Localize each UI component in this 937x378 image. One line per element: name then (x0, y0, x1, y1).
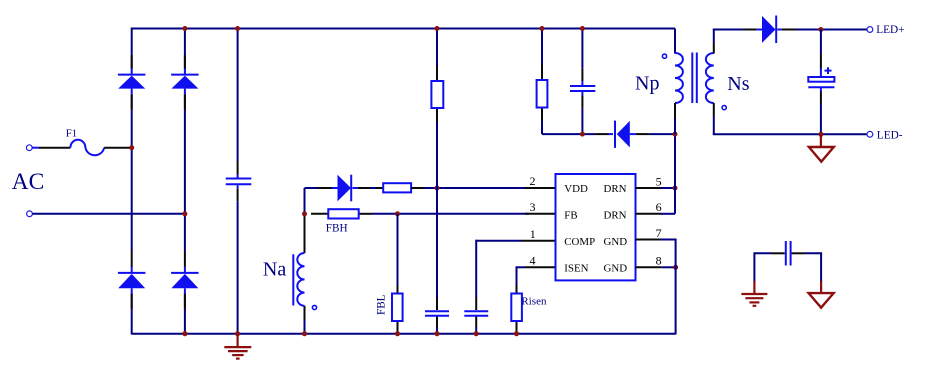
junction bottom rail at bulk cap (235, 331, 240, 336)
wire VDD row left corner (305, 187, 319, 189)
diode D2 bridge top-right (171, 55, 199, 109)
IC pin2 stub (525, 187, 556, 189)
junction top rail at bulk cap (235, 26, 240, 31)
junction pin8 node (673, 265, 678, 270)
wire resistor to VDD node (424, 187, 529, 189)
junction pin5 drain (673, 186, 678, 191)
wire startup resistor column (436, 28, 438, 335)
junction Risen bottom (514, 331, 519, 336)
junction snubber C top (580, 26, 585, 31)
svg-text:FB: FB (564, 209, 577, 221)
wire FBL column (397, 214, 399, 334)
svg-text:DRN: DRN (604, 183, 627, 195)
junction FBL bottom (395, 331, 400, 336)
svg-text:GND: GND (604, 263, 628, 275)
wire bridge left column (131, 28, 133, 335)
capacitor VDD decoupling (425, 311, 449, 316)
wire pin6 to drain (661, 213, 676, 215)
wire Na column upper (304, 188, 306, 253)
svg-text:5: 5 (656, 175, 662, 189)
svg-text:1: 1 (530, 227, 536, 241)
svg-text:FBL: FBL (376, 294, 388, 315)
IC pin8 stub (636, 266, 662, 268)
capacitor output (polarized) (808, 67, 834, 87)
svg-text:7: 7 (656, 226, 662, 240)
svg-text:LED+: LED+ (876, 24, 904, 36)
svg-text:LED-: LED- (877, 129, 903, 141)
junction LED- node (818, 132, 823, 137)
resistor FBH (328, 209, 358, 218)
wire diode to LED+ (796, 29, 867, 31)
winding Na (293, 253, 304, 306)
svg-text:6: 6 (656, 200, 662, 214)
wire ISEN branch (517, 266, 556, 334)
junction top rail at bridge right (182, 26, 187, 31)
wire COMP branch (476, 240, 555, 335)
diode D1 bridge top-left (118, 55, 145, 109)
resistor snubber (537, 80, 548, 108)
junction AC2 node (182, 211, 187, 216)
wire bridge right column (184, 28, 186, 335)
svg-text:DRN: DRN (604, 209, 627, 221)
wire pin8 to gnd column (662, 266, 676, 268)
ground chassis right (809, 281, 834, 308)
wire AC line1 to fuse (32, 147, 70, 149)
wire top rail (132, 28, 675, 30)
capacitor snubber (570, 86, 595, 91)
svg-text:GND: GND (604, 236, 628, 248)
wire Np bottom lead (674, 103, 676, 134)
resistor VDD series (376, 183, 424, 192)
Np phase dot (662, 54, 666, 58)
junction LED+ node (818, 27, 823, 32)
AC terminal bottom (27, 211, 33, 217)
wire snubber bottom row (542, 133, 676, 135)
svg-text:Ns: Ns (727, 73, 749, 95)
junction startup top (435, 26, 440, 31)
svg-text:8: 8 (656, 253, 662, 267)
svg-text:COMP: COMP (564, 236, 595, 248)
IC pin5 stub (636, 187, 661, 189)
wire output cap column (820, 30, 822, 135)
wire gnd column pin7 to bottom rail (675, 239, 677, 335)
transformer core (692, 53, 697, 104)
wire bulk cap column (237, 28, 239, 335)
wire snubber C column (581, 28, 583, 135)
wire diode to resistor (370, 187, 376, 189)
wire pin5 to drain (661, 187, 677, 189)
ground chassis LED- (809, 134, 834, 161)
wire Y-cap left branch (754, 252, 784, 281)
ground earth main (224, 334, 251, 359)
wire Np column top corner (674, 29, 676, 54)
svg-text:ISEN: ISEN (564, 263, 588, 275)
junction FB-FBL node (395, 211, 400, 216)
junction Na bottom (302, 331, 307, 336)
wire Na bottom (304, 306, 306, 335)
svg-text:3: 3 (530, 200, 536, 214)
junction VDD cap bottom (434, 331, 439, 336)
resistor startup (431, 81, 443, 108)
svg-text:F1: F1 (66, 128, 77, 140)
LED- terminal (867, 131, 873, 137)
capacitor COMP (464, 311, 488, 316)
wire Ns top (713, 30, 757, 54)
wire LED- row (713, 103, 867, 134)
svg-text:Na: Na (263, 259, 286, 281)
svg-text:Np: Np (635, 73, 659, 95)
svg-text:FBH: FBH (326, 222, 348, 234)
resistor FBL (392, 294, 403, 322)
diode clamp (609, 121, 636, 148)
Ns phase dot (722, 106, 726, 110)
winding Ns (706, 53, 714, 103)
junction COMP cap bottom (474, 331, 479, 336)
wire fuse to bridge (104, 147, 130, 149)
resistor Risen (511, 294, 522, 322)
junction bottom rail at bridge right (182, 331, 187, 336)
ground earth small (741, 281, 767, 306)
capacitor bulk C1 (226, 174, 252, 188)
svg-text:AC: AC (12, 169, 45, 195)
IC pin7 stub (636, 239, 661, 241)
IC pin3 stub (525, 213, 556, 215)
junction snubber R top (540, 26, 545, 31)
wire drain column pin6 to pin5 (674, 134, 676, 214)
junction VDD node (435, 186, 440, 191)
diode output (756, 16, 796, 44)
wire bottom rail (132, 333, 676, 335)
IC pin6 stub (636, 213, 661, 215)
IC box U1 (556, 174, 636, 280)
wire AC line2 (33, 213, 185, 215)
svg-text:4: 4 (530, 254, 536, 268)
Na phase dot (312, 305, 316, 309)
diode D3 bridge bottom-left (118, 252, 145, 309)
wire snubber R column (541, 28, 543, 135)
wire pin7 to gnd column (661, 239, 676, 241)
diode VDD (to pin2) (318, 175, 370, 202)
wire Y-cap right branch (792, 252, 822, 281)
junction clamp drain node (673, 132, 678, 137)
fuse F1 (70, 140, 104, 156)
winding Np (675, 53, 683, 103)
svg-text:VDD: VDD (564, 183, 588, 195)
LED+ terminal (867, 27, 873, 33)
AC terminal top (26, 145, 32, 151)
junction fuse node (129, 145, 134, 150)
junction FBH left node (302, 211, 307, 216)
svg-text:2: 2 (530, 174, 536, 188)
capacitor Y (786, 241, 791, 266)
svg-text:Risen: Risen (521, 295, 547, 307)
junction snubber bottom (580, 132, 585, 137)
wire FB row (311, 213, 529, 215)
diode D4 bridge bottom-right (171, 252, 199, 309)
